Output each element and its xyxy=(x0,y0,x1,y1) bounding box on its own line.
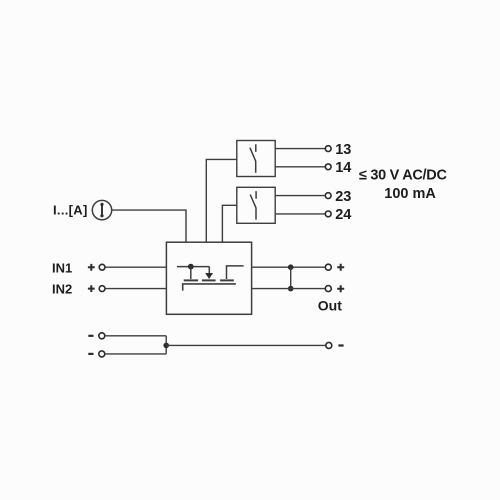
contact box K2 xyxy=(237,187,275,223)
svg-text:14: 14 xyxy=(335,160,351,176)
plus sign IN2 xyxy=(88,285,95,292)
terminal 14 xyxy=(325,164,331,170)
module box U1 xyxy=(166,242,251,314)
mosfet gate bar 2 xyxy=(202,279,216,281)
plus sign out row 1 xyxy=(337,264,344,271)
svg-text:13: 13 xyxy=(335,142,351,158)
mosfet gate lead xyxy=(190,267,192,279)
terminal out row 1 xyxy=(325,264,331,270)
svg-text:Out: Out xyxy=(318,298,342,314)
wire from K2 to module xyxy=(222,205,236,242)
svg-text:IN2: IN2 xyxy=(52,282,72,297)
terminal 23 xyxy=(325,193,331,199)
plus sign out row 2 xyxy=(337,285,344,292)
terminal supply 2 xyxy=(99,351,105,357)
svg-text:≤ 30 V AC/DC: ≤ 30 V AC/DC xyxy=(359,167,447,183)
junction dot out row 1 xyxy=(288,264,294,270)
NO contact symbol K2 xyxy=(250,191,256,220)
svg-text:IN1: IN1 xyxy=(52,260,72,275)
supply return wire xyxy=(166,344,326,346)
terminal IN2 xyxy=(99,286,105,292)
ammeter symbol xyxy=(92,200,111,219)
mosfet junction dot xyxy=(188,264,194,270)
terminal supply return xyxy=(326,342,332,348)
minus sign supply 1 xyxy=(88,335,93,337)
mosfet gate bar 3 xyxy=(220,279,234,281)
terminal out row 2 xyxy=(325,286,331,292)
wire IN1 xyxy=(105,266,166,268)
mosfet arrowhead xyxy=(205,273,213,279)
junction dot supply xyxy=(163,343,169,349)
mosfet arrow lead xyxy=(208,267,210,273)
wire from K1 to module xyxy=(206,159,237,242)
minus sign supply 2 xyxy=(88,353,93,355)
wire from ammeter to module xyxy=(112,210,186,242)
wire to terminal 13 xyxy=(275,148,325,150)
wire supply 2 xyxy=(105,353,166,355)
mosfet source lead xyxy=(227,266,244,279)
wire supply 1 xyxy=(105,335,166,337)
link between out rows xyxy=(290,267,292,288)
wire to terminal 24 xyxy=(275,213,325,215)
wire IN2 xyxy=(105,288,166,290)
terminal IN1 xyxy=(99,264,105,270)
wire out row 2 xyxy=(252,288,326,290)
mosfet gate bar 1 xyxy=(184,279,198,281)
svg-text:24: 24 xyxy=(335,207,351,223)
mosfet channel line xyxy=(183,284,236,291)
NO contact symbol K1 xyxy=(250,144,256,173)
plus sign IN1 xyxy=(88,264,95,271)
supply link wire xyxy=(165,336,167,354)
svg-text:100 mA: 100 mA xyxy=(384,186,436,202)
svg-text:23: 23 xyxy=(335,189,351,205)
wire out row 1 xyxy=(252,266,326,268)
svg-text:I...[A]: I...[A] xyxy=(53,202,88,217)
mosfet drain line xyxy=(177,266,209,268)
contact box K1 xyxy=(237,141,275,177)
terminal 24 xyxy=(325,211,331,217)
junction dot out row 2 xyxy=(288,286,294,292)
minus sign supply return xyxy=(338,344,343,346)
terminal 13 xyxy=(325,146,331,152)
wire to terminal 23 xyxy=(275,195,325,197)
terminal supply 1 xyxy=(99,333,105,339)
wire to terminal 14 xyxy=(275,166,325,168)
